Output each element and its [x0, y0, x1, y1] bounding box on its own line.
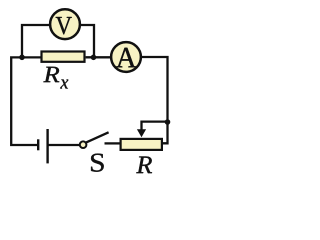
switch S pivot circle — [80, 141, 87, 148]
label S — [91, 154, 104, 172]
wire switch fixed contact to rheostat — [105, 142, 120, 144]
wire voltmeter right branch — [81, 25, 94, 57]
junction node left — [19, 55, 25, 61]
battery short plate (negative) — [37, 139, 39, 150]
label Rx — [43, 67, 59, 82]
wire Rx to ammeter — [86, 56, 111, 58]
label Rx subscript x — [60, 80, 68, 89]
junction node bottom-right — [165, 119, 171, 125]
battery long plate (positive) — [46, 129, 48, 163]
voltmeter V letter — [56, 17, 72, 34]
arrowhead of wiper — [137, 129, 146, 137]
voltmeter V circle — [50, 9, 80, 39]
wire ammeter right + outer right vertical + into rheostat right — [142, 57, 168, 143]
wire main left + outer left vertical + bottom to battery — [11, 57, 40, 145]
rheostat R body — [121, 139, 162, 150]
wire rheostat wiper branch — [142, 122, 168, 131]
resistor Rx body — [42, 52, 85, 62]
wire battery to switch — [49, 144, 80, 146]
wire voltmeter left branch — [22, 25, 50, 57]
junction node right — [91, 55, 97, 61]
ammeter A letter — [116, 48, 136, 68]
switch S lever — [86, 132, 108, 142]
label R rheostat — [136, 157, 152, 174]
ammeter A circle — [111, 42, 141, 72]
